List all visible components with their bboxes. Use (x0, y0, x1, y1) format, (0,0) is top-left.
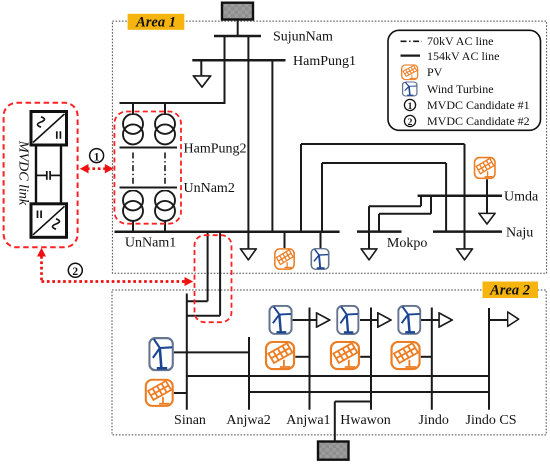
svg-text:70kV AC line: 70kV AC line (427, 34, 493, 48)
svg-text:Area 2: Area 2 (489, 283, 530, 299)
svg-text:2: 2 (408, 118, 413, 128)
svg-text:PV: PV (427, 65, 443, 79)
svg-text:1: 1 (408, 102, 413, 112)
svg-text:Hwawon: Hwawon (340, 413, 391, 428)
svg-text:SujunNam: SujunNam (273, 30, 333, 45)
svg-text:HamPung1: HamPung1 (293, 54, 356, 69)
svg-text:Jindo CS: Jindo CS (466, 413, 517, 428)
svg-text:MVDC link: MVDC link (16, 140, 31, 206)
svg-text:MVDC Candidate #2: MVDC Candidate #2 (427, 114, 530, 128)
svg-text:Jindo: Jindo (419, 413, 449, 428)
svg-text:Area 1: Area 1 (135, 15, 176, 31)
svg-text:2: 2 (72, 266, 78, 278)
svg-text:Anjwa1: Anjwa1 (286, 413, 330, 428)
svg-text:154kV AC line: 154kV AC line (427, 49, 499, 63)
svg-text:Anjwa2: Anjwa2 (226, 413, 270, 428)
svg-text:Sinan: Sinan (174, 413, 206, 428)
svg-text:MVDC Candidate #1: MVDC Candidate #1 (427, 98, 530, 112)
svg-text:1: 1 (94, 151, 100, 163)
svg-text:Umda: Umda (504, 190, 539, 205)
svg-text:Mokpo: Mokpo (387, 236, 427, 251)
svg-text:UnNam2: UnNam2 (184, 181, 235, 196)
svg-text:Wind Turbine: Wind Turbine (427, 82, 494, 96)
svg-text:UnNam1: UnNam1 (125, 236, 176, 251)
svg-text:HamPung2: HamPung2 (184, 142, 247, 157)
svg-text:Naju: Naju (506, 225, 533, 240)
